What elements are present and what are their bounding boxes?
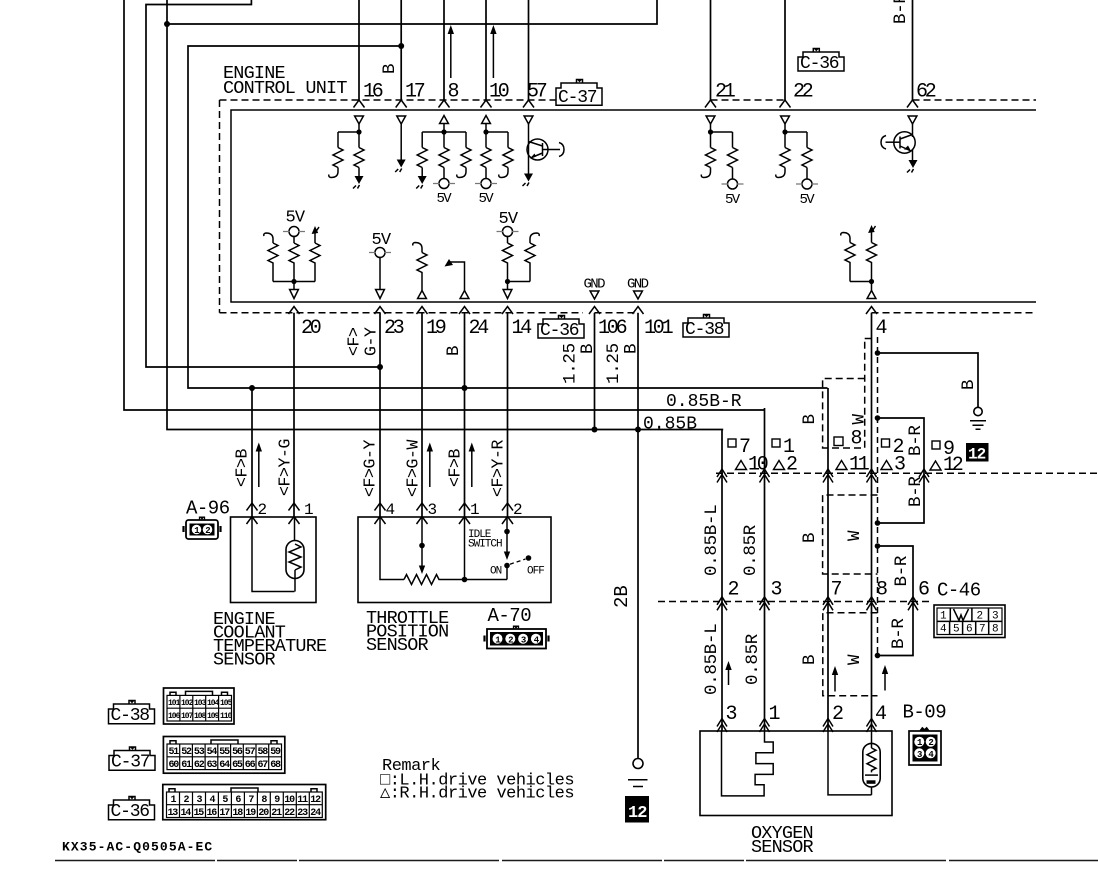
double fork 722 O2 bbox=[717, 719, 727, 733]
svg-text:0.85B-R: 0.85B-R bbox=[666, 392, 742, 412]
svg-text:16: 16 bbox=[207, 808, 218, 819]
wire 10 bbox=[485, 0, 487, 100]
svg-text:62: 62 bbox=[916, 81, 936, 104]
ECT internal wire pin1 bbox=[294, 517, 296, 541]
svg-text:5V: 5V bbox=[479, 191, 495, 207]
pin21 stem bbox=[711, 124, 733, 148]
svg-text:54: 54 bbox=[207, 747, 218, 758]
svg-text:51: 51 bbox=[169, 747, 180, 758]
svg-text:20: 20 bbox=[258, 808, 269, 819]
curl pin8 right bottom bbox=[457, 168, 466, 178]
svg-text:0.85B: 0.85B bbox=[643, 415, 697, 435]
pin19 input triangle up bbox=[418, 291, 427, 299]
pin19 curl top bbox=[413, 243, 422, 253]
resistor pin19 bbox=[417, 253, 427, 291]
pin20 internals: curl top left bbox=[264, 233, 273, 243]
connector icon A-70 bbox=[485, 626, 549, 648]
svg-text:22: 22 bbox=[284, 808, 295, 819]
connector label box C-36 row2 bbox=[538, 316, 584, 342]
svg-text:1: 1 bbox=[917, 738, 923, 748]
pin triangle 2 bbox=[774, 461, 785, 470]
svg-text:14: 14 bbox=[512, 317, 532, 340]
pin8 output triangle bbox=[440, 116, 449, 124]
svg-text:12: 12 bbox=[628, 804, 647, 823]
svg-text:7: 7 bbox=[979, 624, 985, 636]
svg-text:<F>G-W: <F>G-W bbox=[404, 439, 423, 497]
pin20 output triangle down bbox=[290, 290, 299, 299]
svg-text:C-36: C-36 bbox=[800, 54, 839, 74]
wire B x=146 from top stub bbox=[146, 0, 380, 367]
double fork 828 line1 bbox=[823, 469, 833, 483]
ground arrow pin16 bbox=[358, 168, 360, 177]
svg-text:5: 5 bbox=[953, 624, 959, 636]
pin fork 16 bbox=[354, 100, 365, 108]
ground arrow pin8 left bbox=[421, 168, 423, 177]
wire C top branch to x=657 bbox=[167, 0, 657, 24]
svg-text:W: W bbox=[850, 414, 870, 425]
svg-text:C-36: C-36 bbox=[540, 321, 579, 341]
pin23 output triangle down bbox=[376, 290, 385, 299]
5V source pin21 bbox=[732, 168, 734, 180]
svg-text:<F>B: <F>B bbox=[446, 448, 465, 487]
svg-text:52: 52 bbox=[181, 747, 192, 758]
svg-text:10: 10 bbox=[748, 454, 768, 477]
ON contact bbox=[504, 563, 510, 569]
node TPS pin1 join bbox=[462, 577, 468, 583]
TPS potentiometer resistor bbox=[404, 575, 507, 585]
svg-text:104: 104 bbox=[207, 699, 220, 708]
svg-text:65: 65 bbox=[232, 760, 243, 771]
TPS sensor box bbox=[358, 517, 551, 603]
svg-text:4: 4 bbox=[534, 635, 540, 645]
connector dashed line C-46 upper bbox=[716, 472, 1098, 474]
svg-text:A-70: A-70 bbox=[488, 605, 532, 627]
svg-text:18: 18 bbox=[232, 808, 243, 819]
arrow up beside wire464 bbox=[471, 450, 473, 487]
svg-text:C-46: C-46 bbox=[937, 580, 981, 602]
pin10 stem bbox=[486, 124, 508, 148]
node 101 junction bbox=[635, 427, 641, 433]
pin62 input triangle bbox=[908, 116, 917, 124]
svg-text:17: 17 bbox=[405, 81, 425, 104]
ground arrow pin62 bbox=[909, 160, 918, 168]
svg-text:19: 19 bbox=[245, 808, 256, 819]
resistor pin20 right bbox=[310, 243, 320, 282]
svg-text:2: 2 bbox=[508, 635, 513, 645]
pin16 input triangle bbox=[355, 116, 364, 124]
curl collector pin57 bbox=[559, 143, 564, 157]
svg-text:55: 55 bbox=[219, 747, 230, 758]
ground branch wire B bbox=[878, 353, 979, 407]
svg-text:<F>G-Y: <F>G-Y bbox=[361, 439, 380, 497]
sensor fork pairs wire464 bbox=[459, 503, 470, 524]
pin square 2 bbox=[882, 439, 890, 447]
wire 20 to ECT pin1 bbox=[293, 313, 295, 517]
pin fork 62 bbox=[907, 100, 918, 108]
pin triangle 10 bbox=[736, 461, 747, 470]
wire C x=167 from top bbox=[167, 0, 723, 430]
svg-text:23: 23 bbox=[297, 808, 308, 819]
pin24 wiper wire bbox=[450, 262, 465, 291]
heater wire pin2 bbox=[828, 731, 872, 795]
svg-text:24: 24 bbox=[469, 317, 489, 340]
double fork 765 line1 bbox=[760, 469, 770, 483]
svg-text:A-96: A-96 bbox=[186, 498, 230, 520]
arrow up beside wire 8 bbox=[450, 32, 452, 78]
transistor Q pin57 bbox=[528, 124, 530, 174]
TPS idle switch pivot bbox=[506, 517, 508, 552]
double fork 913 line2 bbox=[908, 597, 918, 611]
svg-text:20: 20 bbox=[301, 317, 321, 340]
svg-text:108: 108 bbox=[194, 712, 207, 721]
svg-text:B: B bbox=[622, 344, 642, 354]
pin fork 17 bbox=[396, 100, 407, 108]
svg-text:W: W bbox=[845, 654, 865, 665]
curl pin22 left bottom bbox=[776, 168, 785, 178]
switch throw dashed bbox=[510, 559, 526, 564]
svg-text:SENSOR: SENSOR bbox=[213, 650, 276, 671]
heater capsule bbox=[863, 743, 880, 787]
svg-text:2: 2 bbox=[205, 526, 210, 536]
pin10 output triangle bbox=[482, 116, 491, 124]
svg-text:17: 17 bbox=[219, 808, 230, 819]
pin57 input triangle bbox=[524, 116, 533, 124]
svg-text:B-R: B-R bbox=[892, 555, 912, 586]
svg-text:0.85B-L: 0.85B-L bbox=[702, 505, 722, 576]
wire 101 to ground bus bbox=[637, 313, 639, 430]
wire 14 to TPS pin2 bbox=[507, 313, 509, 517]
pin21 input triangle bbox=[706, 116, 715, 124]
pin20 bottom join bbox=[273, 282, 315, 290]
connector label box C-37 bbox=[556, 80, 602, 109]
double fork 871 O2 bbox=[867, 719, 877, 733]
node pin10 bbox=[483, 129, 488, 134]
svg-text:C-38: C-38 bbox=[111, 706, 150, 726]
GND triangle 106 bbox=[590, 291, 599, 299]
resistor pin20 left bbox=[268, 243, 278, 282]
resistor pin14 right bbox=[525, 243, 535, 282]
node wire 17 junction bbox=[398, 43, 404, 49]
TPS pin1 internal wire bbox=[464, 517, 466, 580]
svg-text:21: 21 bbox=[271, 808, 282, 819]
node junction wire B to wire 23 bbox=[377, 364, 383, 370]
pin fork 24 bbox=[459, 307, 470, 315]
resistor pin8 mid bbox=[439, 148, 449, 168]
svg-text:102: 102 bbox=[181, 699, 194, 708]
svg-text:13: 13 bbox=[168, 808, 179, 819]
connector label box C-38 row2 bbox=[683, 315, 729, 341]
heater resistor bbox=[867, 748, 876, 772]
ECU solid box bbox=[231, 110, 1036, 302]
double fork 828 line2 bbox=[823, 597, 833, 611]
svg-text:106: 106 bbox=[598, 317, 627, 340]
wire 0.85R down bbox=[764, 408, 766, 731]
resistor pin8 right bbox=[461, 148, 471, 168]
svg-text:57: 57 bbox=[245, 747, 256, 758]
resistor pin22 right bbox=[802, 148, 812, 168]
svg-text:10: 10 bbox=[284, 795, 295, 806]
svg-text:66: 66 bbox=[245, 760, 256, 771]
connector icon B-09 bbox=[909, 728, 941, 766]
5V source pin10 bbox=[485, 168, 487, 180]
pin fork 8 bbox=[439, 100, 450, 108]
node pin16 bbox=[356, 129, 361, 134]
double fork 722 line1 bbox=[717, 469, 727, 483]
connector label box C-36 top bbox=[798, 49, 844, 75]
node upper loop top bbox=[875, 415, 881, 421]
svg-text:3: 3 bbox=[521, 635, 526, 645]
svg-text:△:R.H.drive vehicles: △:R.H.drive vehicles bbox=[380, 785, 574, 804]
pin fork 57 bbox=[523, 100, 534, 108]
node wire 24 junction on B line bbox=[462, 385, 468, 391]
svg-text:<F>Y-R: <F>Y-R bbox=[489, 439, 508, 497]
svg-text:2: 2 bbox=[928, 738, 933, 748]
sensor fork pairs wire294 bbox=[289, 503, 300, 524]
pin16 internal stem bbox=[338, 124, 359, 148]
svg-text:12: 12 bbox=[968, 446, 986, 464]
curl pin10 right bottom bbox=[499, 168, 508, 178]
connector icon A-96 bbox=[184, 517, 221, 539]
node branch to A-96 pin 2 bbox=[249, 385, 255, 391]
arrow top pin4 right bbox=[872, 226, 876, 243]
svg-text:C-36: C-36 bbox=[111, 802, 150, 822]
ON wire down bbox=[506, 566, 508, 580]
body ground 2B bbox=[633, 759, 643, 769]
svg-text:5V: 5V bbox=[437, 191, 453, 207]
resistor pin20 mid bbox=[289, 243, 299, 282]
svg-text:C-38: C-38 bbox=[685, 320, 724, 340]
svg-text:B: B bbox=[959, 380, 979, 390]
svg-text:53: 53 bbox=[194, 747, 205, 758]
zirconia element bbox=[722, 731, 774, 796]
wire 21 bbox=[710, 0, 712, 100]
pin triangle 12 bbox=[930, 461, 941, 470]
pin17 input triangle bbox=[397, 116, 406, 124]
svg-text:B: B bbox=[800, 655, 820, 665]
pin14 output triangle down bbox=[503, 290, 512, 299]
svg-text:5V: 5V bbox=[286, 209, 306, 228]
pin fork 19 bbox=[417, 307, 428, 315]
pin4 bottom join bbox=[850, 282, 872, 291]
pin24 input triangle up bbox=[460, 291, 469, 299]
pin fork 10 bbox=[481, 100, 492, 108]
pin22 input triangle bbox=[781, 116, 790, 124]
arrow up beside wire252 bbox=[258, 450, 260, 487]
wire 57 bbox=[528, 0, 530, 100]
svg-text:57: 57 bbox=[527, 81, 547, 104]
svg-text:0.85R: 0.85R bbox=[743, 633, 763, 685]
dashed rect R3 bbox=[823, 613, 878, 696]
wire 19 to TPS pin3 bbox=[421, 313, 423, 517]
pin4 input triangle up bbox=[867, 291, 876, 299]
svg-text:W: W bbox=[845, 530, 865, 541]
sensor fork pairs wire507 bbox=[502, 503, 513, 524]
svg-text:110: 110 bbox=[220, 712, 233, 721]
GND triangle 101 bbox=[634, 291, 643, 299]
body ground right bbox=[974, 407, 982, 415]
connector table C-38 bbox=[164, 688, 235, 724]
svg-text:<F>Y-G: <F>Y-G bbox=[276, 439, 295, 496]
sensor fork pairs wire422 bbox=[417, 503, 428, 524]
svg-text:B-09: B-09 bbox=[903, 702, 947, 724]
svg-text:22: 22 bbox=[793, 81, 813, 104]
pin fork 22 bbox=[780, 100, 791, 108]
pin fork 14 bbox=[502, 307, 513, 315]
svg-text:107: 107 bbox=[181, 712, 194, 721]
curl pin21 left bottom bbox=[701, 168, 710, 178]
double fork 871 line2 bbox=[867, 597, 877, 611]
resistor pin10 right bbox=[503, 148, 513, 168]
transistor Q pin62 bbox=[912, 124, 914, 137]
svg-text:3: 3 bbox=[917, 750, 922, 760]
TPS pin3 wiper bbox=[421, 517, 423, 566]
node pin22 bbox=[782, 129, 787, 134]
B-R loop upper bbox=[878, 418, 925, 523]
svg-text:2: 2 bbox=[977, 611, 983, 623]
pin triangle 11 bbox=[836, 461, 847, 470]
svg-text:B-R: B-R bbox=[906, 425, 926, 456]
ground ref 12 box bbox=[625, 796, 649, 823]
svg-text:56: 56 bbox=[232, 747, 243, 758]
pin fork 101 bbox=[633, 307, 644, 315]
5V source pin22 bbox=[806, 168, 808, 180]
svg-text:58: 58 bbox=[258, 747, 269, 758]
svg-text:24: 24 bbox=[310, 808, 321, 819]
svg-text:15: 15 bbox=[194, 808, 205, 819]
svg-text:CONTROL UNIT: CONTROL UNIT bbox=[223, 78, 347, 99]
curl pin16 left bottom bbox=[329, 168, 338, 178]
connector label box C-37 left bbox=[109, 747, 155, 773]
svg-text:KX35-AC-Q0505A-EC: KX35-AC-Q0505A-EC bbox=[62, 840, 213, 855]
wire 8 bbox=[443, 0, 445, 100]
pin fork 4 bbox=[866, 307, 877, 315]
pin62 emitter stem bbox=[912, 150, 914, 160]
dashed RH wire bbox=[877, 337, 879, 656]
pin triangle 3 bbox=[881, 461, 892, 470]
dashed rect R1 around B wire bbox=[823, 339, 865, 449]
B-R loop lower bbox=[878, 546, 914, 656]
oxygen sensor box bbox=[700, 731, 892, 816]
curl top pin14 right bbox=[530, 233, 539, 243]
arrow pin24 bbox=[445, 259, 454, 267]
svg-text:GND: GND bbox=[627, 277, 649, 293]
node lower loop bottom bbox=[875, 653, 881, 659]
svg-text:B: B bbox=[800, 533, 820, 543]
svg-text:19: 19 bbox=[426, 317, 446, 340]
pin square 7 bbox=[728, 439, 736, 447]
sensor fork pairs wire252 bbox=[247, 503, 258, 524]
svg-text:3: 3 bbox=[992, 611, 998, 623]
5V source pin8 bbox=[443, 168, 445, 180]
connector label box C-36 left bbox=[109, 797, 155, 823]
ECT sensor box bbox=[231, 517, 317, 603]
pin17 stem to ground bbox=[400, 124, 402, 160]
svg-text:B: B bbox=[578, 344, 598, 354]
pin8 stem bbox=[422, 124, 466, 148]
double fork 722 line2 bbox=[717, 597, 727, 611]
pin4 curl top left bbox=[841, 233, 850, 243]
resistor pin4 left bbox=[845, 243, 855, 282]
wire 106 to ground bus bbox=[594, 313, 596, 430]
svg-text:6: 6 bbox=[966, 624, 972, 636]
ground ref 12 box right bbox=[966, 443, 989, 462]
node upper loop bottom bbox=[875, 520, 881, 526]
svg-text:68: 68 bbox=[270, 760, 281, 771]
svg-text:SENSOR: SENSOR bbox=[751, 837, 814, 858]
pin14 bottom join bbox=[508, 282, 531, 290]
svg-text:GND: GND bbox=[584, 277, 606, 293]
svg-text:103: 103 bbox=[194, 699, 207, 708]
svg-text:B: B bbox=[380, 64, 400, 74]
wire 0.85B-L down bbox=[721, 430, 723, 732]
svg-text:11: 11 bbox=[297, 795, 308, 806]
arrow up beside wire 10 bbox=[492, 32, 494, 78]
double fork 828 O2 bbox=[823, 719, 833, 733]
node pin21 bbox=[708, 129, 713, 134]
resistor pin21 left bbox=[706, 148, 716, 168]
connector dashed line C-46 lower bbox=[658, 601, 929, 603]
resistor pin16 left bbox=[333, 148, 343, 168]
svg-text:C-37: C-37 bbox=[111, 753, 150, 773]
svg-text:16: 16 bbox=[363, 81, 383, 104]
resistor pin22 left bbox=[780, 148, 790, 168]
thermistor ECT bbox=[286, 541, 304, 579]
resistor pin4 right bbox=[867, 243, 877, 282]
node pin8 bbox=[441, 129, 446, 134]
svg-text:67: 67 bbox=[258, 760, 269, 771]
connector table C-37 bbox=[163, 737, 284, 774]
pin fork 23 bbox=[375, 307, 386, 315]
svg-text:106: 106 bbox=[168, 712, 181, 721]
svg-text:B-R: B-R bbox=[889, 618, 909, 649]
pin23 stem bbox=[379, 257, 381, 290]
wire 62 bbox=[912, 0, 914, 100]
svg-text:5V: 5V bbox=[725, 192, 741, 208]
node C branch at y=24 bbox=[164, 21, 170, 27]
pin fork 106 bbox=[589, 307, 600, 315]
arrow up beside B wire bbox=[834, 673, 836, 692]
svg-text:SWITCH: SWITCH bbox=[468, 539, 502, 551]
connector table C-36 bbox=[163, 785, 326, 820]
svg-text:<F>B: <F>B bbox=[233, 448, 252, 487]
svg-text:12: 12 bbox=[310, 795, 321, 806]
double fork 765 O2 bbox=[760, 719, 770, 733]
svg-text:OFF: OFF bbox=[527, 566, 544, 578]
double fork 765 line2 bbox=[760, 597, 770, 611]
double fork 871 line1 bbox=[867, 469, 877, 483]
ground arrow pin17 bbox=[397, 160, 406, 168]
connector icon C-46 bbox=[934, 605, 1005, 638]
svg-text:B-R: B-R bbox=[891, 0, 911, 24]
pin22 stem bbox=[785, 124, 807, 148]
svg-text:1: 1 bbox=[495, 635, 501, 645]
ECT internal wire pin2 bbox=[252, 517, 295, 592]
svg-text:C-37: C-37 bbox=[558, 88, 597, 108]
ECU dashed connector box bbox=[220, 99, 557, 101]
wire 22 bbox=[784, 0, 786, 100]
svg-text:105: 105 bbox=[220, 699, 233, 708]
page bottom rule bbox=[55, 860, 1098, 862]
ground arrow pin57 bbox=[524, 174, 533, 182]
dashed link R1 to W bbox=[865, 338, 872, 340]
svg-text:ON: ON bbox=[490, 566, 502, 578]
pin square 8 bbox=[834, 437, 843, 446]
wire 23 to TPS pin4 bbox=[379, 313, 381, 517]
svg-text:109: 109 bbox=[207, 712, 220, 721]
svg-text:10: 10 bbox=[489, 81, 509, 104]
resistor pin14 left bbox=[503, 243, 513, 282]
resistor pin16 right bbox=[354, 148, 364, 168]
